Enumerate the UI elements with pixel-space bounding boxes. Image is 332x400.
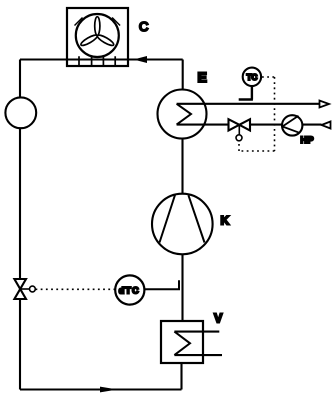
instrument dTC: [115, 275, 144, 304]
evaporator E: [158, 90, 207, 139]
svg-text:V: V: [214, 312, 223, 326]
svg-text:C: C: [139, 19, 148, 34]
wire secondary bottom pipe seg1: [177, 124, 229, 126]
svg-text:HP: HP: [301, 135, 315, 145]
svg-text:dTC: dTC: [119, 285, 140, 295]
svg-text:TC: TC: [247, 73, 258, 82]
evaporator V: [161, 321, 222, 363]
flow arrow into C: [134, 56, 148, 63]
wire secondary top pipe: [177, 103, 320, 105]
condenser C: [67, 8, 128, 66]
expansion valve: [14, 279, 35, 299]
wire secondary bottom pipe seg3: [303, 124, 322, 126]
flow arrow bottom: [100, 387, 118, 393]
svg-text:E: E: [198, 69, 207, 85]
wire riser E bottom to K top: [181, 139, 183, 195]
wire secondary bottom pipe seg2: [250, 124, 282, 126]
wire top pipe: [20, 58, 183, 60]
wire dTC sensor line: [145, 280, 180, 289]
arrow out top right (open): [320, 101, 330, 108]
wire bottom pipe: [20, 388, 182, 390]
wire riser V bottom: [180, 363, 182, 390]
control line dashed dTC to expansion valve: [36, 288, 116, 290]
compressor K: [152, 194, 213, 255]
wire left pipe upper: [19, 60, 21, 99]
wire left pipe middle: [19, 128, 21, 280]
arrow in bottom right (open, pointing left): [322, 122, 331, 129]
svg-text:K: K: [221, 214, 230, 228]
pump HP: [282, 115, 302, 135]
wire left pipe lower: [19, 299, 21, 390]
receiver circle: [5, 97, 36, 128]
control valve: [229, 119, 251, 141]
wire riser K bottom to V top: [181, 255, 183, 322]
instrument TC: [239, 68, 261, 100]
control line dashed TC to valve: [239, 77, 275, 151]
wire riser to E top: [182, 60, 184, 91]
